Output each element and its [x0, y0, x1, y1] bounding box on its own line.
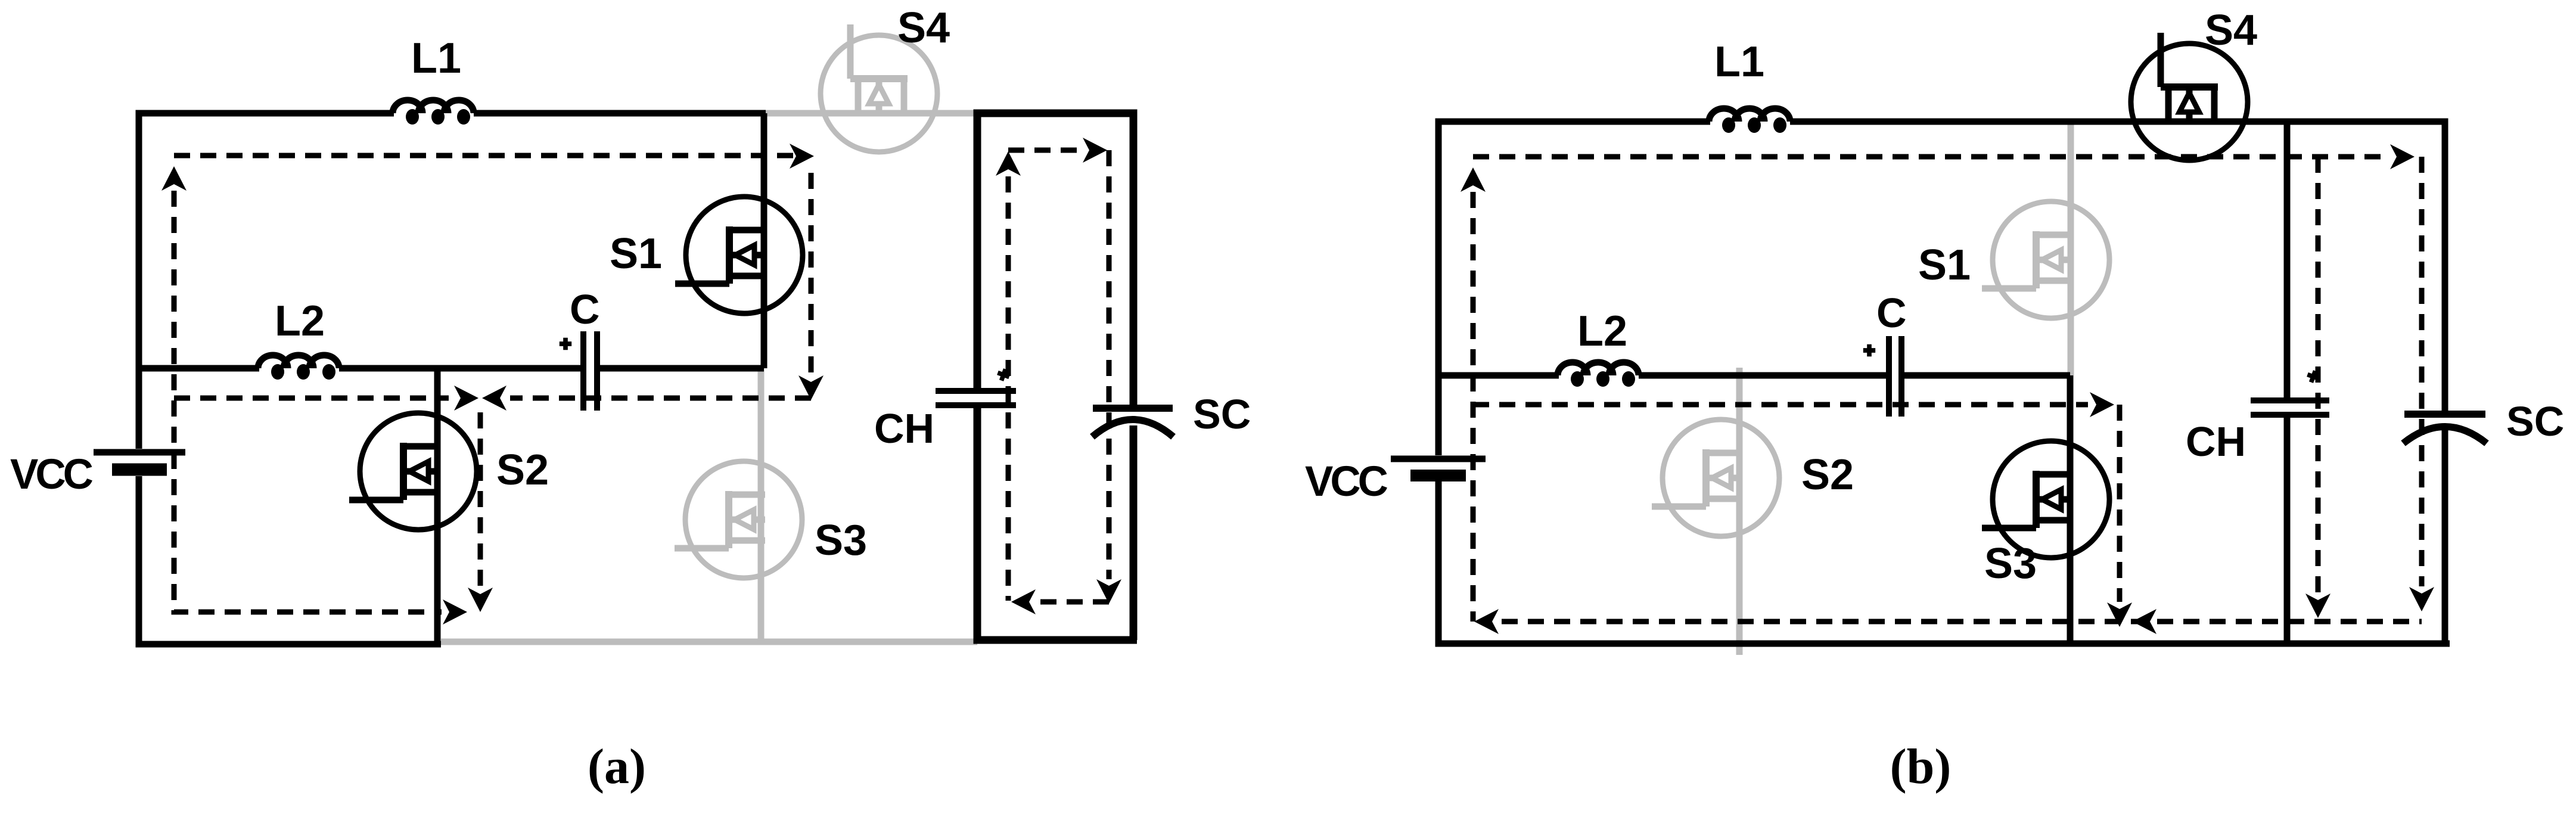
svg-text:C: C [570, 286, 600, 333]
svg-text:C: C [1876, 290, 1907, 336]
svg-text:S1: S1 [610, 230, 662, 278]
svg-text:L1: L1 [411, 35, 461, 82]
svg-text:L2: L2 [1577, 307, 1627, 355]
svg-text:S4: S4 [897, 4, 950, 52]
svg-text:S1: S1 [1918, 241, 1971, 289]
svg-text:VCC: VCC [1305, 458, 1388, 505]
svg-text:L2: L2 [275, 297, 325, 345]
svg-text:S2: S2 [1801, 451, 1854, 499]
svg-text:CH: CH [874, 405, 934, 452]
svg-text:S3: S3 [815, 517, 867, 564]
svg-text:S4: S4 [2205, 7, 2257, 54]
svg-text:(a): (a) [588, 739, 646, 794]
svg-text:SC: SC [2506, 398, 2564, 445]
svg-text:S2: S2 [496, 446, 549, 494]
svg-text:VCC: VCC [10, 451, 93, 498]
svg-text:CH: CH [2186, 418, 2246, 465]
svg-text:L1: L1 [1714, 38, 1764, 86]
svg-text:S3: S3 [1984, 540, 2037, 588]
svg-text:(b): (b) [1890, 739, 1952, 794]
svg-text:SC: SC [1193, 391, 1251, 437]
